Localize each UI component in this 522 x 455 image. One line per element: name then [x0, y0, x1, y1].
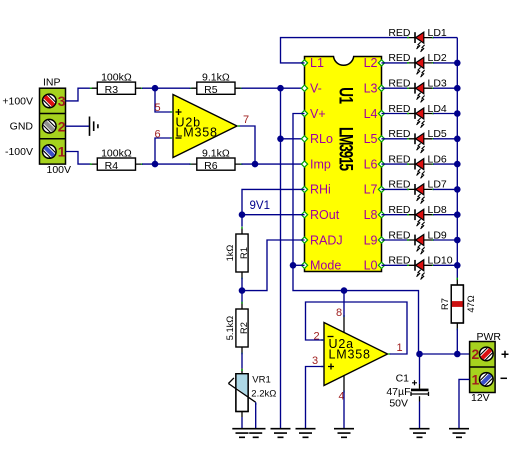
wire U1 L4 to LD4 [382, 113, 409, 115]
wire LD2 anode to 12V bus [433, 62, 457, 64]
junction node bus LD8 [454, 211, 461, 218]
junction node R7/rail [454, 351, 461, 358]
IC U1 LM3915 [301, 56, 384, 272]
wire U2a pin4 to ground [343, 391, 345, 429]
wire C1 to ground [419, 402, 421, 429]
junction node bus LD5 [454, 136, 461, 143]
capacitor C1 47uF 50V [386, 354, 428, 409]
svg-text:50V: 50V [389, 397, 408, 409]
svg-text:L5: L5 [364, 132, 378, 146]
wire LD5 anode to 12V bus [433, 138, 457, 140]
LED LD3 RED [388, 78, 447, 103]
svg-text:C1: C1 [396, 372, 410, 384]
svg-text:L8: L8 [364, 208, 378, 222]
svg-text:R1: R1 [239, 247, 249, 259]
wire U1 L8 to LD8 [382, 214, 409, 216]
wire U1 L6 to LD6 [382, 163, 409, 165]
potentiometer VR1 2.2k [228, 368, 276, 417]
junction node bus LD7 [454, 186, 461, 193]
svg-text:6: 6 [155, 129, 161, 141]
svg-text:47Ω: 47Ω [466, 295, 476, 312]
LED LD1 RED [388, 27, 447, 52]
svg-text:R7: R7 [440, 298, 450, 310]
junction node R3/R5/pin5 [152, 85, 159, 92]
svg-text:1kΩ: 1kΩ [225, 245, 235, 262]
wire U2a pin8 to 12V rail [343, 291, 345, 317]
svg-text:12V: 12V [471, 392, 490, 404]
svg-text:9V1: 9V1 [250, 200, 270, 212]
svg-text:3: 3 [312, 355, 318, 367]
junction node bus LD3 [454, 85, 461, 92]
wire 12V LED bus [456, 38, 458, 280]
svg-text:RADJ: RADJ [310, 233, 343, 247]
svg-text:5: 5 [155, 102, 161, 114]
svg-text:2: 2 [314, 331, 320, 343]
svg-text:9.1kΩ: 9.1kΩ [202, 147, 230, 159]
svg-text:L3: L3 [364, 82, 378, 96]
resistor R2 5.1k [225, 302, 249, 355]
junction node R4/R6/pin6 [152, 161, 159, 168]
wire U1 L0 to LD10 [382, 264, 409, 266]
wire rail to PWR pin2 [419, 353, 470, 355]
wire LD8 anode to 12V bus [433, 214, 457, 216]
svg-text:RLo: RLo [310, 132, 333, 146]
resistor R1 1k [225, 227, 249, 280]
wire U2b output pin7 feedback to Imp [240, 126, 256, 164]
LED LD7 RED [388, 179, 447, 204]
svg-text:L0: L0 [364, 259, 378, 273]
svg-text:VR1: VR1 [252, 374, 270, 385]
connector J2 PWR [470, 331, 509, 404]
svg-text:LM358: LM358 [329, 348, 371, 362]
junction node V-/RLo [277, 85, 284, 92]
svg-text:L9: L9 [364, 233, 378, 247]
svg-text:L6: L6 [364, 157, 378, 171]
resistor R7 47ohm [440, 278, 476, 331]
wire RADJ to R1/R2 divider [242, 240, 305, 291]
wire V- net down to analog ground [280, 88, 282, 428]
ground (analog V-) [271, 429, 291, 438]
svg-text:1: 1 [397, 342, 403, 354]
LED LD6 RED [388, 153, 447, 178]
junction node Mode/V+ [290, 262, 297, 269]
wire INP pin3 to R3 [66, 88, 92, 101]
junction node R1/R2/RADJ [239, 287, 246, 294]
wire R7 to 12V rail [456, 329, 458, 355]
svg-text:L4: L4 [364, 107, 378, 121]
wire R5 to U1 V- [241, 87, 304, 89]
wire R1 to R2 [241, 278, 243, 304]
svg-text:2.2kΩ: 2.2kΩ [251, 389, 276, 400]
svg-text:U1: U1 [335, 87, 357, 104]
svg-text:R5: R5 [204, 84, 218, 96]
svg-text:100kΩ: 100kΩ [101, 147, 132, 159]
junction node bus LD6 [454, 161, 461, 168]
junction node U2a pin8 on rail [341, 287, 348, 294]
svg-text:LM358: LM358 [176, 126, 218, 140]
svg-text:8: 8 [336, 307, 342, 319]
op-amp U2a LM358 [321, 315, 390, 393]
svg-text:2: 2 [472, 346, 480, 362]
resistor R4 100k [90, 147, 143, 172]
wire LD9 anode to 12V bus [433, 239, 457, 241]
junction node pin7/R6/Imp [252, 161, 259, 168]
wire LD10 anode to 12V bus [433, 264, 457, 266]
LED LD2 RED [388, 52, 447, 77]
svg-text:3: 3 [58, 93, 66, 109]
junction node bus LD10 [454, 262, 461, 269]
wire U2a output feedback to pin2 [306, 302, 408, 354]
ground (PWR pin1) [449, 429, 469, 438]
svg-text:L7: L7 [364, 183, 378, 197]
wire U1 V+ / Mode / 12V rail [293, 114, 419, 355]
svg-text:R2: R2 [239, 322, 249, 334]
wire U1 L2 to LD2 [382, 62, 409, 64]
svg-text:+100V: +100V [2, 95, 33, 107]
svg-text:-100V: -100V [5, 146, 33, 158]
wire U2a pin3 to ground [306, 367, 325, 429]
junction node RLo [277, 136, 284, 143]
wire R4 to R6 and U2b pin6 [142, 138, 191, 164]
ground (U2a pin3) [296, 429, 316, 438]
svg-text:L1: L1 [310, 56, 324, 70]
svg-text:R4: R4 [105, 160, 119, 172]
wire LD4 anode to 12V bus [433, 113, 457, 115]
svg-text:R6: R6 [204, 160, 218, 172]
ground (U2a pin4) [334, 429, 354, 438]
svg-text:V+: V+ [310, 107, 326, 121]
wire PWR pin1 to ground [459, 379, 470, 428]
wire R6 to U1 Imp pin [241, 163, 304, 165]
LED LD4 RED [388, 103, 447, 128]
wire to RLo pin [281, 138, 305, 140]
svg-text:2: 2 [58, 118, 66, 134]
wire LD1 anode to 12V bus [433, 37, 457, 39]
LED LD8 RED [388, 204, 447, 229]
wire R3 to R5 and U2b pin5 [142, 88, 191, 112]
wire LD3 anode to 12V bus [433, 87, 457, 89]
wire U1 L9 to LD9 [382, 239, 409, 241]
LED LD10 RED [388, 255, 452, 280]
resistor R6 9.1k [189, 147, 242, 172]
svg-text:LM3915: LM3915 [335, 127, 357, 171]
svg-text:1: 1 [472, 372, 480, 388]
svg-text:7: 7 [243, 114, 249, 126]
ground (INP pin 2) [90, 117, 98, 136]
svg-text:GND: GND [10, 121, 34, 133]
wire RHi to ROut (9V1 net) [242, 189, 305, 226]
junction node bus LD9 [454, 237, 461, 244]
wire U1 L7 to LD7 [382, 188, 409, 190]
svg-text:RHi: RHi [310, 183, 331, 197]
svg-text:5.1kΩ: 5.1kΩ [225, 316, 235, 341]
ground (C1) [410, 429, 430, 438]
op-amp U2b LM358 [170, 95, 240, 158]
svg-text:PWR: PWR [477, 331, 502, 343]
wire INP pin1 to R4 [66, 152, 92, 165]
junction node bus LD2 [454, 60, 461, 67]
wire U1 L1 to LD1 [281, 38, 409, 63]
svg-text:Mode: Mode [310, 259, 341, 273]
svg-text:9.1kΩ: 9.1kΩ [202, 72, 230, 84]
junction node C1/rail [416, 351, 423, 358]
wire R2 to VR1 [241, 353, 243, 369]
wire U1 L3 to LD3 [382, 87, 409, 89]
svg-text:Imp: Imp [310, 157, 331, 171]
resistor R5 9.1k [189, 72, 242, 97]
svg-text:1: 1 [58, 144, 66, 160]
junction node bus LD4 [454, 110, 461, 117]
wire INP pin2 to ground [66, 125, 90, 127]
LED LD9 RED [388, 229, 447, 254]
svg-text:100kΩ: 100kΩ [101, 72, 132, 84]
wire VR1 wiper to ground [255, 402, 257, 428]
svg-text:L2: L2 [364, 56, 378, 70]
wire LD7 anode to 12V bus [433, 188, 457, 190]
svg-text:V-: V- [310, 82, 322, 96]
wire LD6 anode to 12V bus [433, 163, 457, 165]
connector J1 INP [40, 77, 72, 176]
svg-text:100V: 100V [47, 164, 72, 176]
wire VR1 bottom to ground [241, 417, 243, 428]
junction node 9V1 [239, 211, 246, 218]
LED LD5 RED [388, 128, 447, 153]
svg-text:INP: INP [43, 77, 61, 89]
wire Mode pin [293, 264, 305, 266]
resistor R3 100k [90, 72, 143, 97]
ground (VR1 bottom + wiper) [232, 429, 265, 438]
wire U1 L5 to LD5 [382, 138, 409, 140]
svg-text:ROut: ROut [310, 208, 340, 222]
svg-text:R3: R3 [105, 84, 119, 96]
